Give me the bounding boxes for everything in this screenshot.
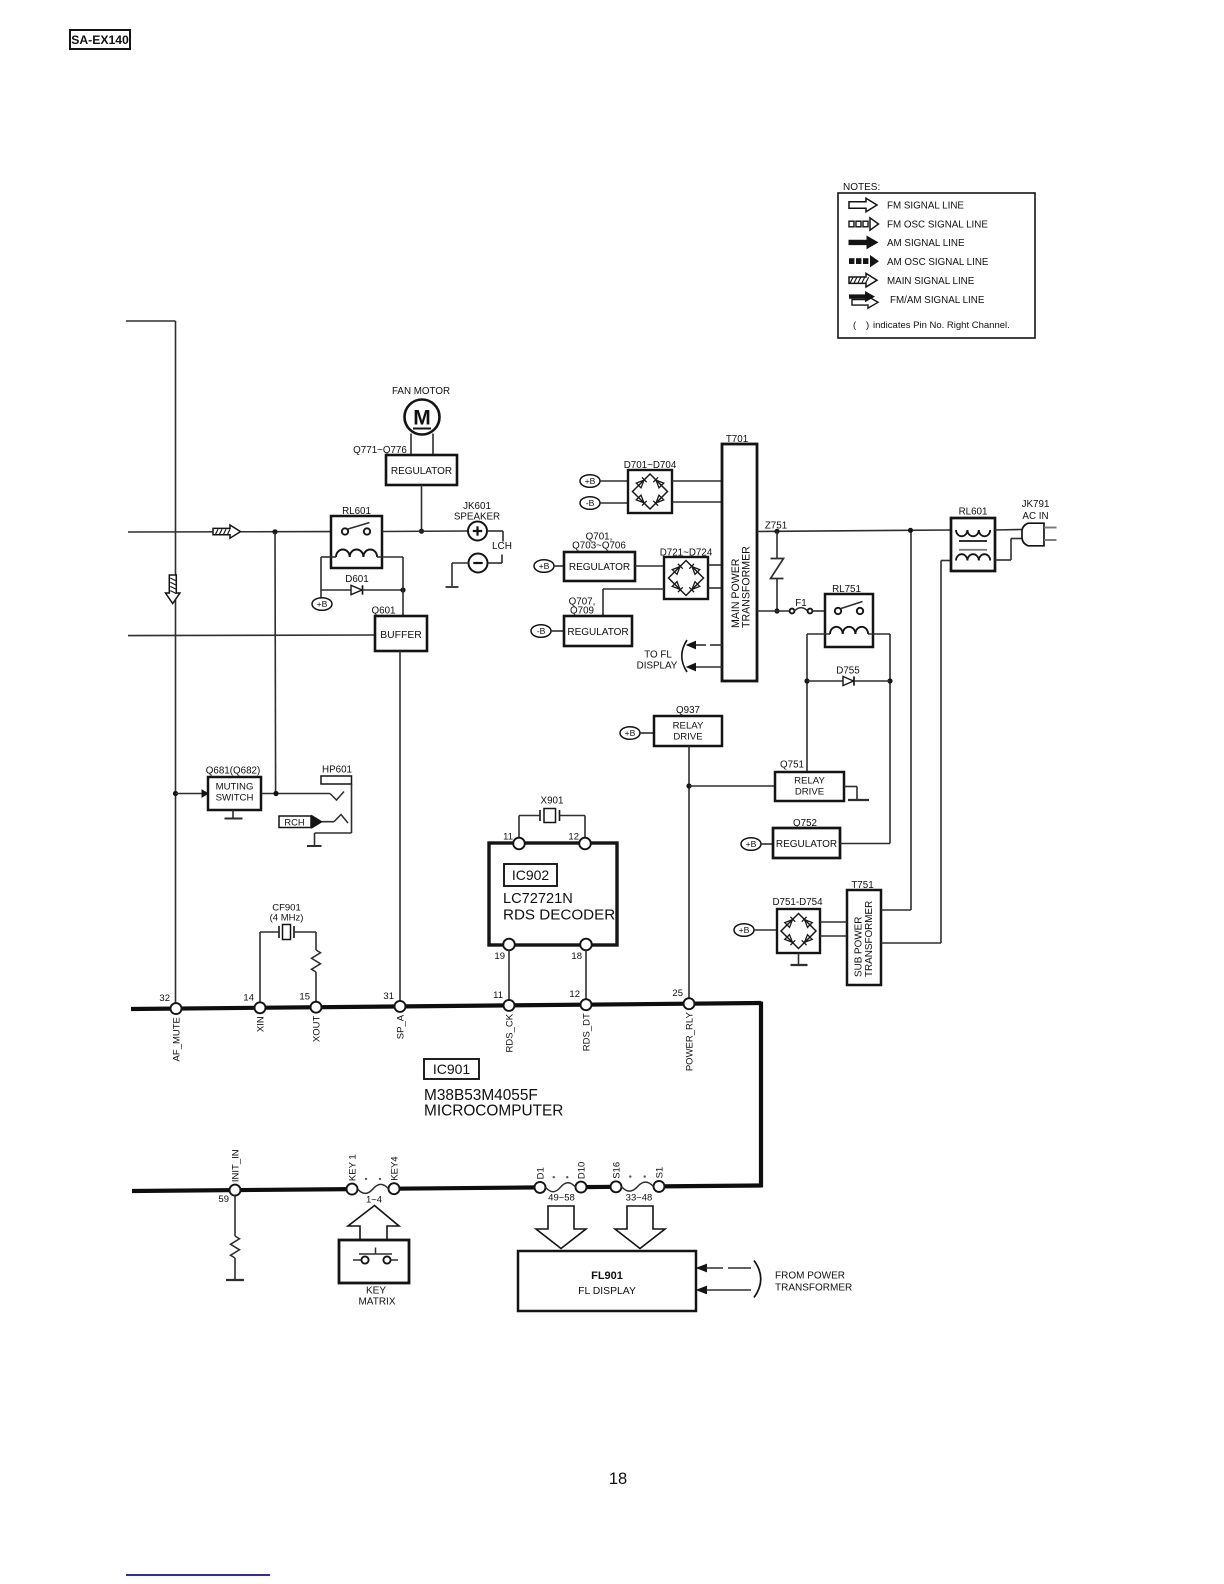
svg-text:+B: +B (739, 925, 750, 935)
power -B (D701 bridge) (580, 497, 600, 510)
wire F1 to RL751 (812, 610, 825, 612)
IC902 pin 12 (579, 838, 591, 850)
diode D755 (843, 676, 854, 685)
svg-text:+B: +B (585, 476, 596, 486)
RL601 secondary coil (956, 554, 967, 560)
wires bridge D751 to T751 (820, 921, 847, 923)
svg-text:M38B53M4055F: M38B53M4055F (424, 1087, 538, 1104)
svg-text:TO FL: TO FL (644, 650, 672, 661)
IC901 pin S1 (654, 1181, 665, 1192)
bridge rectifier D751-D754 (777, 909, 820, 953)
svg-text:IC902: IC902 (512, 867, 550, 883)
wire CF901 to resistor to pin 15 (294, 931, 316, 933)
svg-text:D601: D601 (345, 574, 368, 585)
relay RL751 switch contacts (835, 608, 841, 614)
svg-text:POWER_RLY: POWER_RLY (685, 1012, 696, 1072)
wire Q752 output (840, 843, 890, 845)
svg-text:59: 59 (218, 1194, 229, 1205)
IC901 pin 12 RDS_DT (581, 999, 592, 1010)
svg-text:M: M (413, 407, 431, 430)
node Q937/Q751 junction (686, 783, 691, 788)
node muting input junction (173, 791, 178, 796)
wire D601 anode line (321, 589, 351, 591)
svg-text:AM OSC SIGNAL LINE: AM OSC SIGNAL LINE (887, 257, 989, 268)
svg-text:RCH: RCH (284, 817, 304, 827)
block arrow down (D1-D10 to FL) (536, 1206, 586, 1249)
svg-text:MAIN SIGNAL LINE: MAIN SIGNAL LINE (887, 276, 975, 287)
IC901 label box (424, 1059, 479, 1079)
footer blue rule (126, 1574, 270, 1576)
svg-text:32: 32 (159, 993, 170, 1004)
svg-text:SA-EX140: SA-EX140 (71, 33, 129, 47)
svg-text:18: 18 (609, 1470, 627, 1488)
power +B (D701 bridge) (580, 475, 600, 488)
svg-text:INIT_IN: INIT_IN (231, 1149, 242, 1182)
IC901 pin 15 XOUT (311, 1002, 322, 1013)
resistor (XOUT) (312, 950, 321, 972)
relay drive Q751 box (775, 772, 844, 801)
legend arrow AM OSC signal line (849, 258, 854, 264)
ground (D751 bridge) (798, 953, 800, 964)
svg-text:FM OSC SIGNAL LINE: FM OSC SIGNAL LINE (887, 220, 988, 231)
svg-text:SUB POWER: SUB POWER (854, 917, 865, 977)
svg-text:FM SIGNAL LINE: FM SIGNAL LINE (887, 201, 964, 212)
transformer T701 main power box (722, 444, 757, 681)
node junction on main line (272, 529, 277, 534)
svg-text:12: 12 (569, 989, 580, 1000)
relay RL601 switch contacts (342, 528, 348, 534)
svg-text:BUFFER: BUFFER (380, 630, 422, 641)
IC901 right bus edge (759, 1002, 763, 1188)
wire +B to bridge (600, 480, 628, 482)
svg-text:TRANSFORMER: TRANSFORMER (775, 1283, 852, 1294)
svg-text:JK791: JK791 (1022, 499, 1050, 510)
arrows from power transformer (697, 1264, 707, 1271)
power +B (D601) (312, 598, 332, 611)
power +B (Q701) (534, 560, 554, 573)
svg-text:LCH: LCH (492, 541, 512, 552)
wire bridge D721 lower tap to Q707 regulator (603, 588, 664, 590)
diode D601 (351, 585, 362, 594)
svg-text:49~58: 49~58 (548, 1193, 575, 1204)
svg-text:SWITCH: SWITCH (216, 793, 254, 804)
svg-text:D1: D1 (536, 1167, 547, 1179)
IC901 pin S16 (611, 1181, 622, 1192)
IC902 pin 11 (513, 838, 525, 850)
IC902 pin 19 (503, 939, 515, 951)
svg-text:12: 12 (568, 832, 579, 843)
IC901 pin 32 AF_MUTE (171, 1003, 182, 1014)
wire D601 cathode line (363, 589, 404, 591)
svg-text:33~48: 33~48 (626, 1193, 653, 1204)
bus skip KEY1..KEY4 (358, 1184, 389, 1193)
key matrix box (339, 1240, 409, 1283)
legend arrow FM/AM signal line (852, 297, 878, 309)
IC901 pin D1 (535, 1182, 546, 1193)
node muting output junction (273, 791, 278, 796)
relay RL601 box (331, 516, 382, 568)
IC901 pin 59 (230, 1185, 241, 1196)
svg-text:X901: X901 (541, 796, 564, 807)
node D755 left (804, 678, 809, 683)
power +B (Q752) (741, 838, 761, 851)
wire T751 output 2 to RL601 (881, 942, 941, 944)
wire minus hook (488, 562, 503, 564)
svg-text:(4 MHz): (4 MHz) (270, 913, 304, 924)
svg-text:11: 11 (493, 990, 503, 1001)
svg-text:1~4: 1~4 (366, 1195, 382, 1206)
svg-text:KEY: KEY (366, 1286, 386, 1297)
svg-text:Q751: Q751 (780, 760, 804, 771)
svg-text:DISPLAY: DISPLAY (637, 661, 678, 672)
wire top-left corner feed (126, 320, 176, 322)
node AC line junction (908, 528, 913, 533)
svg-text:AM SIGNAL LINE: AM SIGNAL LINE (887, 238, 965, 249)
ground (HP601) (307, 845, 322, 847)
regulator Q701 box (564, 552, 635, 581)
node F1 junction (774, 608, 779, 613)
svg-text:RELAY: RELAY (794, 776, 825, 787)
wire RCH to R contact (322, 821, 334, 823)
muting switch Q681 box (208, 777, 261, 810)
svg-text:AC IN: AC IN (1022, 511, 1048, 522)
tag RCH (279, 816, 311, 828)
wire RL601 coil left to +B / D601 (321, 556, 331, 558)
wire plus hook (487, 530, 503, 532)
svg-text:TRANSFORMER: TRANSFORMER (864, 901, 875, 977)
IC901 pin 25 POWER_RLY (684, 998, 695, 1009)
HP601 sleeve wire (351, 784, 353, 833)
power -B (Q707) (531, 625, 551, 638)
legend arrow AM signal line (849, 236, 878, 248)
wire IC902 pin18 to bus (585, 950, 587, 999)
svg-text:SP_A: SP_A (396, 1014, 407, 1039)
AC plug JK791 (1022, 523, 1044, 546)
svg-text:MICROCOMPUTER: MICROCOMPUTER (424, 1103, 563, 1120)
svg-text:D755: D755 (836, 666, 860, 677)
svg-text:KEY4: KEY4 (390, 1156, 401, 1180)
wire Q937 to bus pin 25 (688, 746, 690, 998)
RL601 primary coil (956, 530, 967, 536)
arrows TO FL DISPLAY (710, 644, 722, 646)
svg-text:AF_MUTE: AF_MUTE (172, 1017, 183, 1061)
wire main signal line (to RL601) (128, 531, 331, 533)
svg-text:XOUT: XOUT (312, 1016, 323, 1043)
svg-text:14: 14 (243, 992, 254, 1003)
speaker jack JK601 plus terminal (468, 522, 487, 541)
IC901 pin KEY4 (389, 1183, 400, 1194)
wire buffer to bus pin 31 (399, 651, 401, 1001)
legend arrow MAIN signal line (849, 273, 877, 287)
svg-text:REGULATOR: REGULATOR (569, 562, 630, 573)
key switch symbol (353, 1259, 361, 1261)
svg-text:JK601: JK601 (463, 501, 491, 512)
IC901 pin 11 RDS_CK (504, 1000, 515, 1011)
wire arrow into muting switch (176, 793, 203, 795)
bus skip S16..S1 (622, 1182, 654, 1191)
bridge rectifier D721-D724 (664, 557, 708, 599)
signal arrow right (hatched, MAIN SIGNAL LINE) (213, 525, 241, 538)
block arrow up (keys to bus) (348, 1206, 399, 1241)
fan motor M1 (405, 400, 440, 435)
wire second input line (128, 634, 375, 637)
wire CF901 to pin 14 (260, 931, 279, 933)
svg-text:NOTES:: NOTES: (843, 182, 880, 193)
svg-text:REGULATOR: REGULATOR (391, 466, 452, 477)
IC901 pin 31 SP_A (395, 1001, 406, 1012)
resonator CF901 (278, 926, 280, 938)
ground (Q751) (844, 786, 857, 788)
relay RL601 coil (336, 550, 350, 558)
power +B (D751 bridge) (734, 924, 754, 937)
wire branch down to muting switch (274, 532, 277, 794)
IC901 bottom bus (132, 1189, 352, 1191)
node Z751 (774, 529, 779, 534)
IC901 pin 14 XIN (255, 1002, 266, 1013)
legend arrow FM OSC signal line (849, 221, 854, 227)
svg-text:S16: S16 (612, 1162, 623, 1179)
svg-text:FL901: FL901 (591, 1270, 623, 1282)
HP601 R contact (334, 815, 348, 824)
svg-text:11: 11 (503, 832, 513, 843)
wire muting output to HP601 (261, 793, 330, 795)
resistor (INIT_IN) (231, 1236, 240, 1258)
wire RL601 coil right down to buffer (382, 556, 403, 558)
speaker jack JK601 minus terminal (469, 554, 488, 573)
svg-text:D10: D10 (577, 1162, 588, 1179)
svg-text:KEY 1: KEY 1 (348, 1154, 359, 1181)
svg-text:): ) (866, 320, 869, 331)
wires bridge D721 to T701 (708, 564, 722, 566)
wire junction to Q751 (689, 785, 775, 787)
crystal X901 (539, 810, 541, 821)
svg-text:+B: +B (317, 599, 328, 609)
wire IC902 pin19 to bus (508, 950, 510, 1000)
wire X901 to pin 12 (560, 815, 586, 817)
svg-text:LC72721N: LC72721N (503, 891, 573, 907)
wire minus to ground stub (452, 562, 469, 564)
svg-text:+B: +B (539, 561, 550, 571)
svg-text:31: 31 (383, 991, 394, 1002)
svg-text:RL601: RL601 (959, 507, 988, 518)
notes legend box (838, 193, 1035, 338)
wires bridge D701 to T701 (672, 480, 722, 482)
block arrow down (S16-S1 to FL) (615, 1206, 665, 1249)
svg-text:18: 18 (571, 951, 582, 962)
headphone jack HP601 body (321, 776, 352, 784)
relay RL751 coil (830, 627, 843, 634)
model label SA-EX140 (70, 30, 130, 49)
svg-text:REGULATOR: REGULATOR (776, 839, 837, 850)
svg-text:FROM POWER: FROM POWER (775, 1271, 845, 1282)
wire RL751 coil left to Q751 (807, 633, 830, 635)
svg-text:TRANSFORMER: TRANSFORMER (741, 546, 753, 628)
ground (muting switch) (232, 810, 234, 818)
svg-text:15: 15 (299, 992, 310, 1003)
IC901 pin KEY 1 (347, 1184, 358, 1195)
svg-text:RDS_CK: RDS_CK (505, 1013, 516, 1052)
regulator Q707 box (564, 616, 632, 646)
svg-text:25: 25 (672, 988, 683, 999)
svg-text:-B: -B (586, 498, 595, 508)
wire to speaker plus (382, 530, 468, 533)
svg-text:FM/AM SIGNAL LINE: FM/AM SIGNAL LINE (890, 295, 985, 306)
ground (INIT_IN) (226, 1279, 244, 1281)
svg-text:REGULATOR: REGULATOR (567, 627, 628, 638)
IC902 pin 18 (580, 939, 592, 951)
svg-text:MUTING: MUTING (216, 782, 254, 793)
fuse Z751 (surge limiter) (776, 531, 778, 558)
wire RL601 to AC plug bottom (995, 559, 1011, 561)
svg-text:Q937: Q937 (676, 705, 700, 716)
svg-text:S1: S1 (655, 1167, 666, 1179)
relay drive Q937 box (654, 716, 722, 746)
relay RL751 box (825, 594, 873, 647)
svg-text:RDS DECODER: RDS DECODER (503, 907, 615, 924)
buffer Q601 box (375, 616, 427, 651)
FL display FL901 box (518, 1251, 696, 1311)
regulator Q771-Q776 box (386, 455, 457, 485)
wire pin59 down (234, 1196, 236, 1236)
wire RL601 to AC plug top (995, 529, 1022, 532)
signal arrow down (hatched) (166, 575, 180, 604)
svg-text:Q681(Q682): Q681(Q682) (206, 766, 260, 777)
wire T701 to F1 (757, 610, 790, 612)
svg-text:XIN: XIN (256, 1016, 267, 1032)
svg-text:DRIVE: DRIVE (673, 732, 702, 743)
svg-text:DRIVE: DRIVE (795, 787, 824, 798)
svg-text:+B: +B (625, 728, 636, 738)
wire resistor to pin 15 (315, 972, 317, 1002)
svg-text:indicates Pin No. Right Channe: indicates Pin No. Right Channel. (873, 320, 1010, 331)
svg-text:-B: -B (537, 626, 546, 636)
svg-text:FL DISPLAY: FL DISPLAY (578, 1286, 636, 1297)
svg-text:+B: +B (746, 839, 757, 849)
bus skip D1..D10 (546, 1183, 576, 1192)
RL601 core lines (959, 540, 987, 542)
svg-text:19: 19 (494, 951, 505, 962)
svg-text:IC901: IC901 (433, 1061, 471, 1077)
svg-text:D751-D754: D751-D754 (772, 897, 823, 908)
node D755 right (887, 678, 892, 683)
svg-text:Q703~Q706: Q703~Q706 (572, 541, 626, 552)
wire D755 cathode line (854, 680, 890, 682)
svg-text:RELAY: RELAY (673, 721, 704, 732)
IC901 pin D10 (576, 1182, 587, 1193)
legend arrow FM signal line (849, 198, 877, 212)
HP601 L contact (330, 792, 344, 801)
IC902 box (489, 843, 617, 945)
wire -B to bridge (600, 502, 628, 504)
transformer T751 sub power box (847, 890, 881, 985)
IC902 label box (504, 864, 557, 886)
wire RL751 coil right down (868, 633, 890, 635)
IC901 top bus (131, 1003, 761, 1009)
wire regulator to D721 bridge (635, 565, 664, 567)
wire regulator to speaker line (421, 485, 423, 531)
svg-text:MATRIX: MATRIX (358, 1297, 395, 1308)
svg-text:HP601: HP601 (322, 765, 352, 776)
power +B (Q937) (620, 727, 640, 740)
bridge rectifier D701-D704 (628, 470, 672, 513)
line filter RL601 box (951, 518, 995, 571)
wire D755 anode line (807, 680, 843, 682)
svg-text:FAN MOTOR: FAN MOTOR (392, 386, 450, 397)
regulator Q752 box (773, 828, 840, 858)
AC plug prongs (1044, 527, 1057, 529)
wire T701 to RL601 line filter (757, 530, 952, 532)
fuse F1 (790, 609, 795, 614)
wire T751 output 1 up to AC line (881, 909, 911, 911)
svg-text:RDS_DT: RDS_DT (582, 1013, 593, 1051)
wire X901 to pin 11 (519, 815, 540, 817)
wire motor to regulator (410, 434, 412, 456)
